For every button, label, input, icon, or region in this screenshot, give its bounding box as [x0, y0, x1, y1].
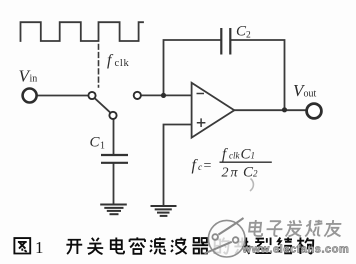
svg-text:f: f [222, 147, 228, 163]
svg-text:1: 1 [251, 151, 256, 161]
svg-text:C: C [90, 135, 101, 151]
svg-text:2: 2 [222, 166, 229, 181]
svg-text:clk: clk [115, 58, 130, 69]
svg-text:π: π [231, 166, 239, 181]
svg-text:in: in [30, 74, 38, 85]
svg-text:out: out [304, 89, 317, 100]
svg-text:c: c [198, 163, 203, 173]
svg-text:=: = [204, 159, 212, 174]
svg-text:clk: clk [229, 151, 240, 161]
svg-text:1: 1 [100, 141, 105, 152]
svg-text:f: f [107, 52, 114, 69]
svg-text:2: 2 [253, 169, 258, 179]
svg-text:1: 1 [35, 238, 44, 257]
svg-text:2: 2 [246, 31, 251, 41]
svg-text:www.elecfans.com: www.elecfans.com [242, 244, 350, 256]
